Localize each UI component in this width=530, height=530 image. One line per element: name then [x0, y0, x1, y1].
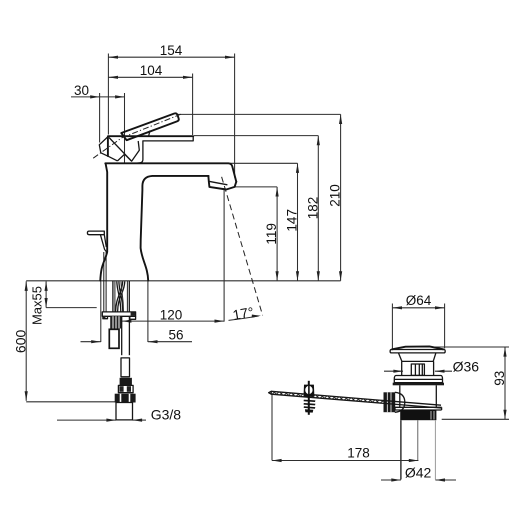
ball joint socket	[395, 392, 405, 412]
svg-text:600: 600	[12, 330, 28, 354]
dimension O36	[384, 359, 479, 375]
dimension G3/8	[57, 407, 181, 423]
handle base (tilted escutcheon)	[99, 136, 139, 161]
extension line handle top (210)	[177, 113, 341, 115]
svg-text:178: 178	[347, 446, 370, 461]
svg-text:30: 30	[74, 83, 89, 98]
svg-text:120: 120	[160, 308, 183, 323]
svg-text:Ø42: Ø42	[405, 465, 432, 481]
waste top flange	[393, 376, 444, 386]
shank below counter with supply hoses	[113, 281, 129, 312]
angle arc 17deg	[229, 316, 259, 320]
dimension O64	[392, 293, 444, 348]
rod clamp / clevis with spring clip	[304, 381, 316, 415]
svg-text:147: 147	[285, 209, 300, 232]
faucet body outline	[100, 163, 236, 280]
dimension 30	[71, 83, 125, 163]
svg-text:104: 104	[140, 63, 163, 78]
svg-text:Max55: Max55	[29, 286, 44, 325]
svg-text:93: 93	[492, 371, 507, 386]
flexible hose to G3/8	[115, 316, 136, 420]
dimension 182	[305, 136, 320, 281]
handle axis dash-dot centerline	[93, 114, 181, 158]
dimension 210	[328, 114, 343, 280]
svg-text:210: 210	[328, 184, 343, 207]
dimension Max55	[29, 281, 96, 325]
threaded section (black)	[400, 410, 436, 420]
knurled nut	[384, 392, 396, 412]
plug stem with slots	[411, 364, 424, 375]
dimension 104	[108, 63, 192, 135]
dimension 56	[81, 281, 193, 343]
horizontal pivot rod (threaded)	[269, 391, 441, 408]
vertical reference line at spout outlet (17deg)	[223, 189, 225, 322]
svg-text:182: 182	[305, 197, 320, 220]
counter / mounting surface line	[26, 280, 340, 282]
svg-text:154: 154	[160, 43, 183, 58]
dimension O42	[381, 465, 456, 482]
dimension 600	[12, 281, 115, 402]
svg-text:Ø64: Ø64	[406, 293, 432, 308]
dimension 93	[430, 347, 509, 419]
dimension 178	[272, 395, 418, 462]
water stream dashed line	[222, 177, 263, 315]
pop-up pull rod knob	[87, 231, 106, 312]
waste cap	[390, 346, 445, 353]
svg-text:G3/8: G3/8	[151, 407, 182, 423]
extension line spout bottom (119)	[235, 186, 277, 188]
extension line body top (147)	[230, 162, 298, 164]
extension line plate top (182)	[194, 135, 318, 137]
tailpipe	[401, 420, 436, 479]
dimension 147	[285, 163, 300, 280]
waste lower flange	[395, 407, 442, 410]
handle lever	[121, 113, 179, 140]
dimension 119	[264, 187, 279, 281]
svg-text:Ø36: Ø36	[453, 359, 480, 375]
handle base plate	[108, 131, 193, 164]
mounting flange and fixing nut	[102, 312, 135, 348]
svg-text:56: 56	[168, 327, 183, 342]
dimension 120	[122, 308, 224, 323]
waste upper body	[400, 385, 437, 407]
svg-text:119: 119	[264, 223, 279, 245]
waste cap cone neck	[399, 353, 436, 375]
dimension 154	[108, 43, 234, 178]
